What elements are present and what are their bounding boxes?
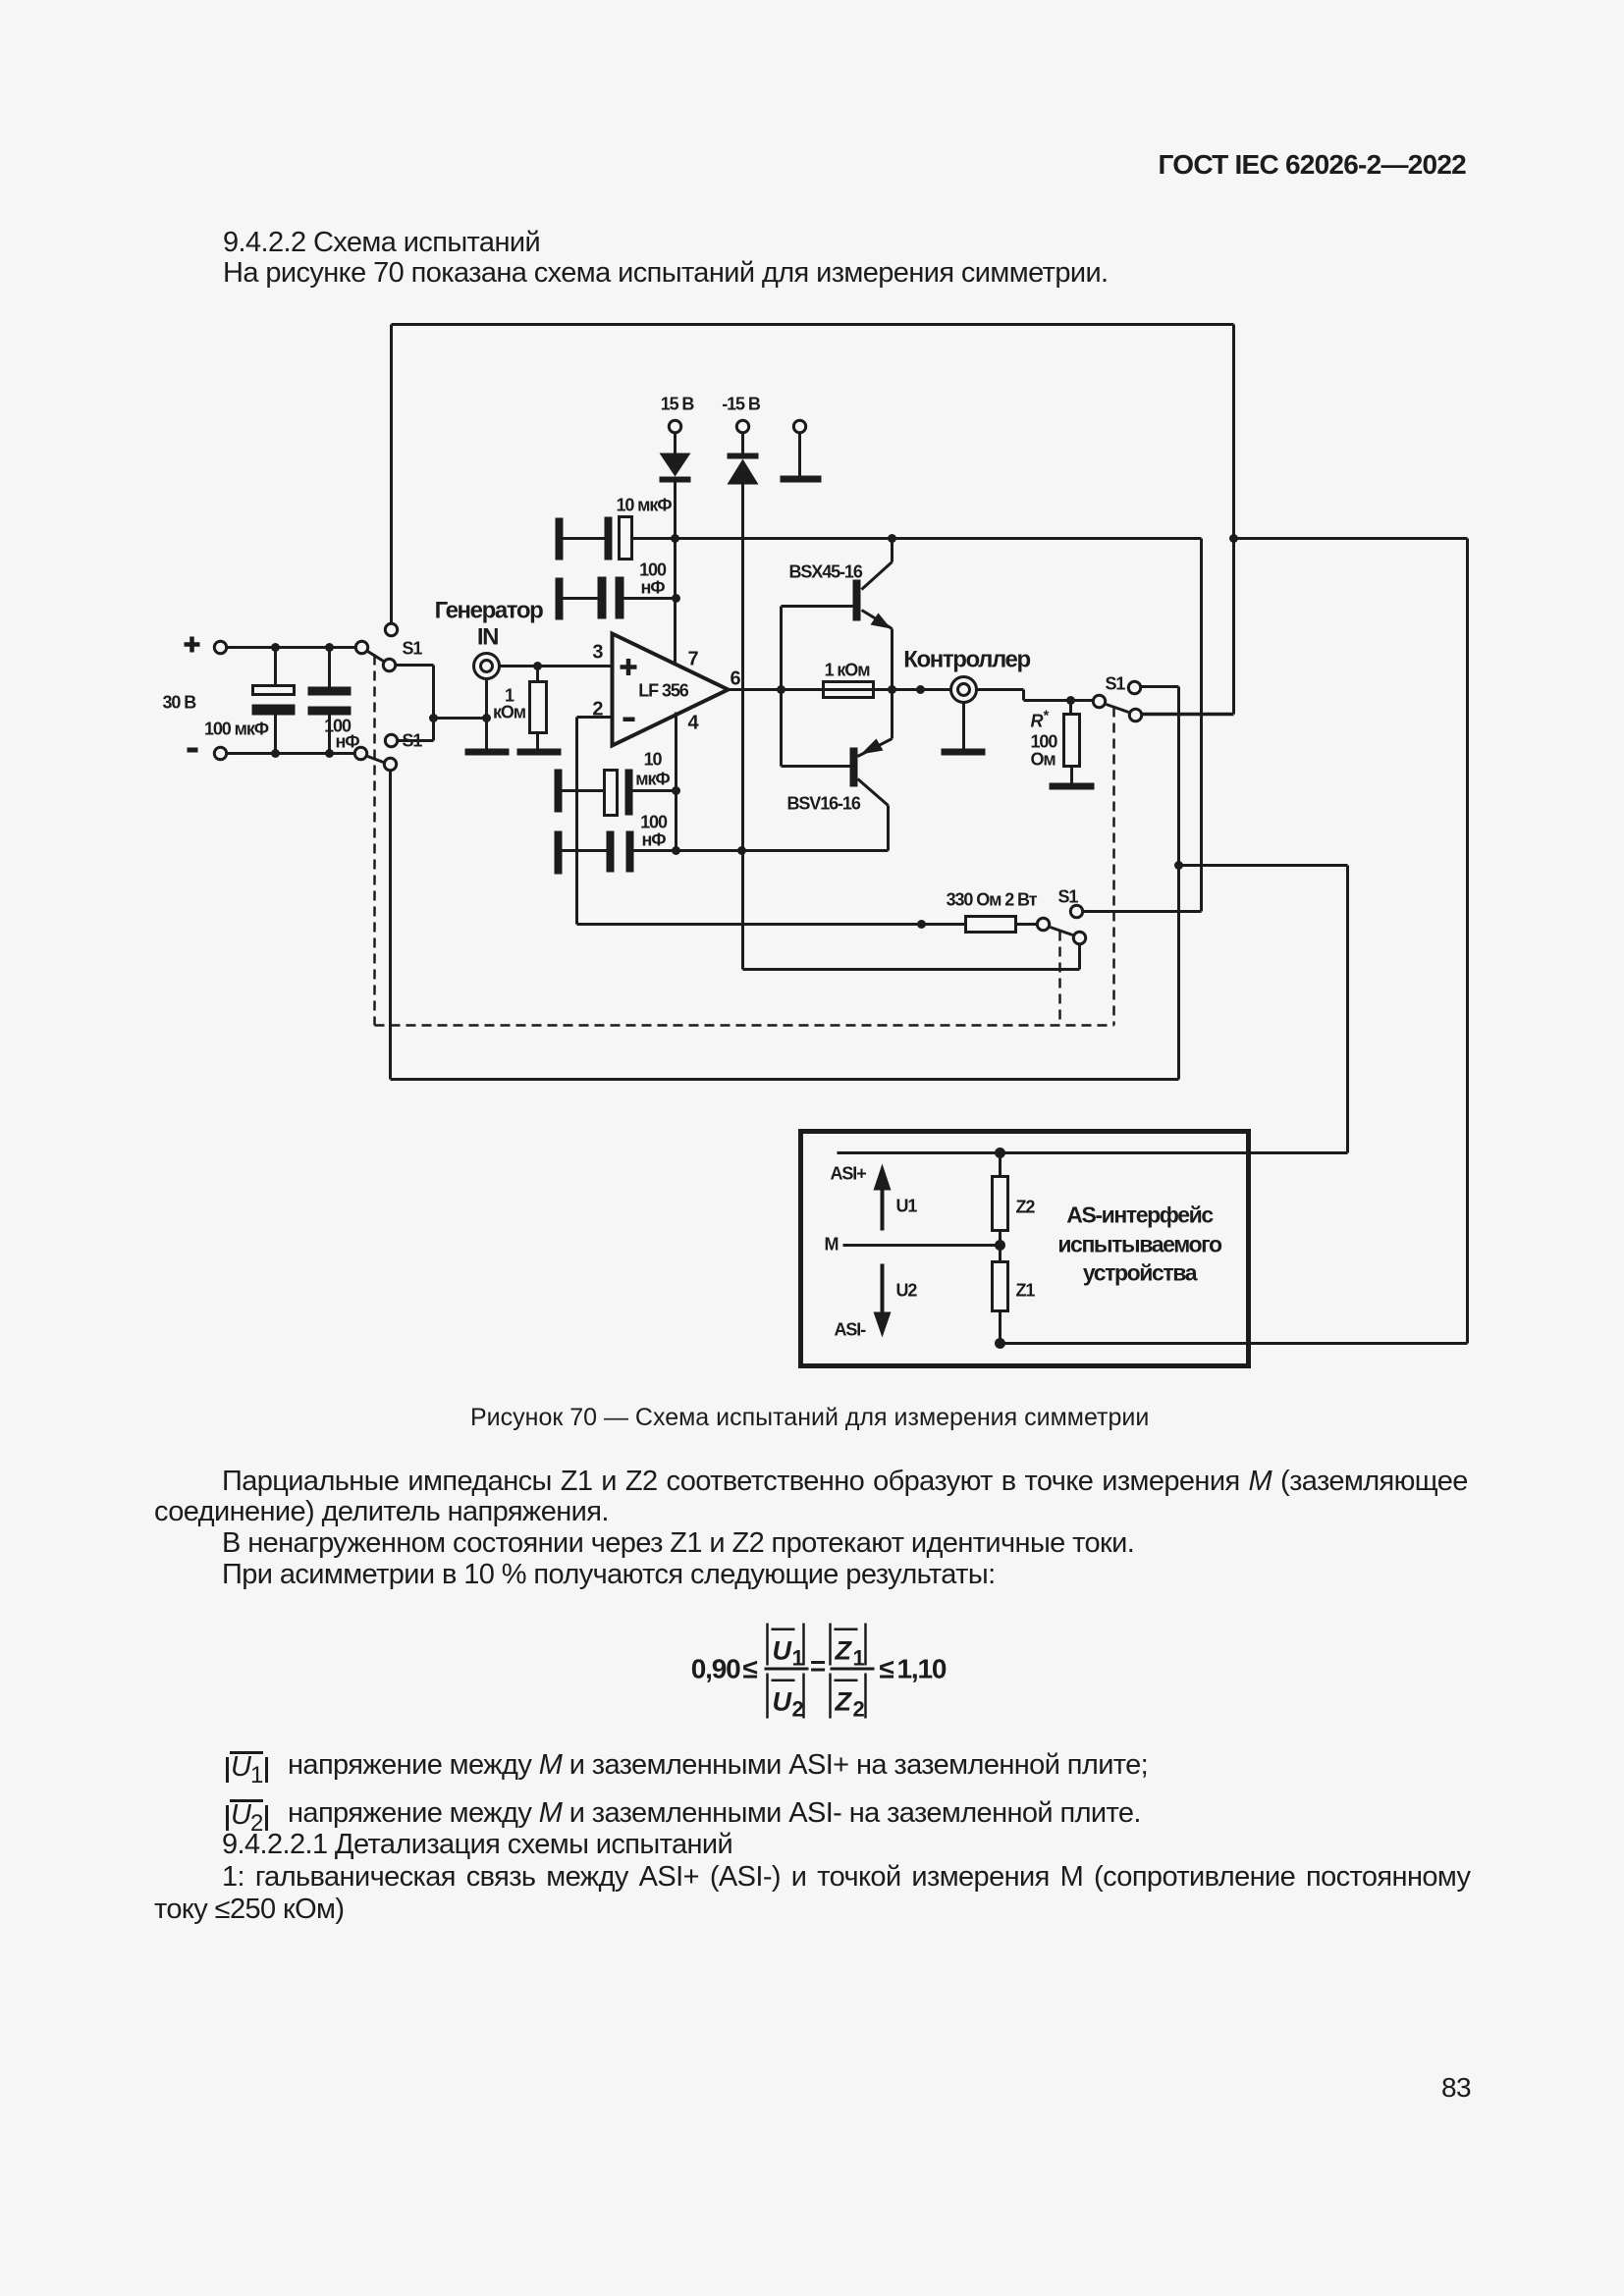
svg-text:1,10: 1,10 — [897, 1654, 947, 1684]
svg-text:7: 7 — [687, 649, 698, 670]
svg-text:ASI+: ASI+ — [831, 1164, 867, 1184]
svg-text:100: 100 — [639, 561, 667, 580]
svg-text:≤: ≤ — [880, 1654, 894, 1684]
svg-text:U1: U1 — [896, 1197, 918, 1216]
svg-text:1 кОм: 1 кОм — [825, 661, 871, 680]
svg-text:S1: S1 — [1058, 887, 1079, 907]
svg-text:Z: Z — [835, 1687, 853, 1717]
svg-text:BSV16-16: BSV16-16 — [787, 794, 861, 814]
svg-text:Z: Z — [835, 1636, 853, 1666]
svg-text:IN: IN — [477, 624, 498, 651]
svg-text:100: 100 — [640, 813, 668, 832]
svg-text:10: 10 — [644, 750, 663, 770]
svg-text:испытываемого: испытываемого — [1057, 1232, 1222, 1257]
svg-text:2: 2 — [592, 699, 603, 721]
svg-text:S1: S1 — [1106, 674, 1126, 694]
svg-text:1: 1 — [853, 1646, 865, 1671]
svg-text:≤: ≤ — [743, 1654, 758, 1684]
svg-text:2: 2 — [792, 1697, 804, 1722]
svg-text:BSX45-16: BSX45-16 — [789, 562, 863, 582]
svg-text:ASI-: ASI- — [835, 1320, 867, 1340]
svg-text:U2: U2 — [896, 1281, 918, 1301]
svg-text:100 мкФ: 100 мкФ — [204, 720, 269, 739]
svg-text:3: 3 — [592, 642, 603, 664]
svg-text:15 В: 15 В — [661, 395, 695, 414]
svg-text:M: M — [825, 1235, 839, 1255]
svg-text:1: 1 — [792, 1646, 804, 1671]
svg-text:нФ: нФ — [335, 732, 359, 752]
svg-text:R: R — [1031, 712, 1044, 731]
svg-text:10 мкФ: 10 мкФ — [616, 496, 672, 515]
svg-text:кОм: кОм — [493, 703, 526, 722]
svg-text:6: 6 — [730, 668, 740, 690]
svg-text:=: = — [810, 1651, 826, 1682]
svg-text:U: U — [773, 1687, 793, 1717]
svg-text:S1: S1 — [403, 639, 423, 659]
svg-text:Z1: Z1 — [1016, 1281, 1036, 1301]
svg-text:30 В: 30 В — [163, 693, 197, 713]
svg-text:Генератор: Генератор — [435, 598, 543, 624]
svg-text:100: 100 — [1031, 732, 1058, 752]
svg-text:нФ: нФ — [641, 830, 666, 850]
svg-text:нФ: нФ — [640, 578, 665, 598]
svg-text:Ом: Ом — [1031, 750, 1056, 770]
svg-text:*: * — [1044, 708, 1050, 724]
svg-text:мкФ: мкФ — [635, 770, 670, 789]
svg-text:4: 4 — [687, 713, 699, 734]
svg-text:S1: S1 — [403, 731, 423, 751]
svg-text:-15 В: -15 В — [722, 395, 761, 414]
svg-text:330 Ом 2 Вт: 330 Ом 2 Вт — [947, 890, 1038, 910]
svg-text:U: U — [773, 1636, 793, 1666]
svg-text:Z2: Z2 — [1016, 1198, 1036, 1217]
svg-text:устройства: устройства — [1083, 1260, 1198, 1286]
svg-text:Контроллер: Контроллер — [903, 647, 1030, 673]
svg-text:LF 356: LF 356 — [638, 681, 689, 701]
svg-text:0,90: 0,90 — [691, 1654, 740, 1684]
svg-text:2: 2 — [853, 1697, 865, 1722]
svg-text:AS-интерфейс: AS-интерфейс — [1066, 1202, 1214, 1228]
